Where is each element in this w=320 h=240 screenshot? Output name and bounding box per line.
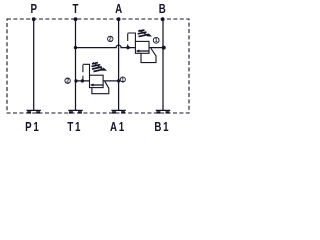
svg-text:P: P [30, 3, 37, 16]
svg-text:B: B [159, 3, 166, 16]
svg-text:1: 1 [155, 38, 158, 44]
svg-text:B1: B1 [154, 121, 170, 134]
svg-text:1: 1 [121, 77, 124, 83]
svg-text:2: 2 [109, 37, 112, 43]
svg-text:A: A [115, 3, 122, 16]
svg-text:P1: P1 [25, 121, 40, 134]
svg-text:A1: A1 [110, 121, 126, 134]
svg-text:T: T [73, 3, 79, 16]
svg-text:T1: T1 [67, 121, 82, 134]
svg-text:2: 2 [66, 79, 69, 85]
